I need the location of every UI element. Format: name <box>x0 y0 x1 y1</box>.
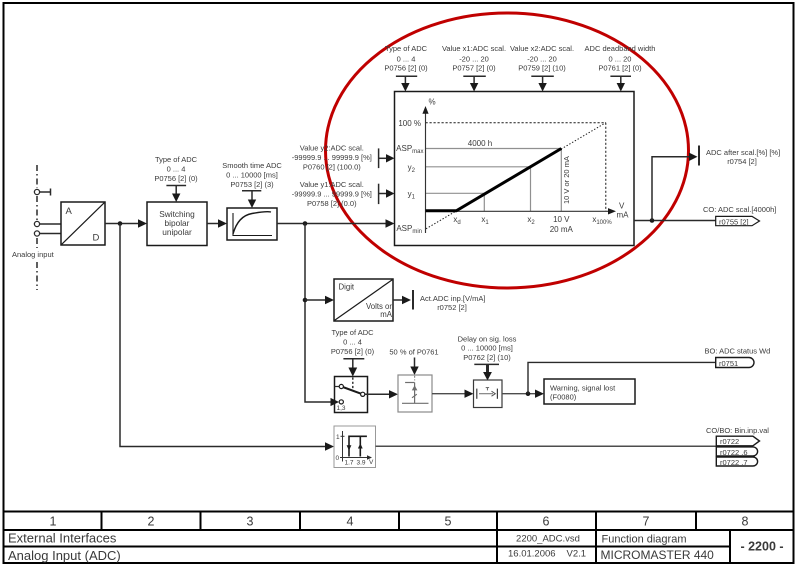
svg-text:D: D <box>93 233 100 244</box>
svg-text:Value x1:ADC scal.: Value x1:ADC scal. <box>442 44 506 53</box>
svg-text:Smooth time ADC: Smooth time ADC <box>222 161 282 170</box>
svg-text:External Interfaces: External Interfaces <box>8 531 117 546</box>
svg-text:(F0080): (F0080) <box>550 393 577 402</box>
svg-text:6: 6 <box>543 515 550 529</box>
svg-text:Function diagram: Function diagram <box>602 534 687 546</box>
svg-text:r0722: r0722 <box>720 437 739 446</box>
svg-text:unipolar: unipolar <box>162 227 192 237</box>
svg-text:1: 1 <box>336 434 340 441</box>
svg-text:Digit: Digit <box>339 282 355 291</box>
svg-text:Type of ADC: Type of ADC <box>385 44 428 53</box>
svg-text:Type of ADC: Type of ADC <box>331 328 374 337</box>
svg-text:16.01.2006: 16.01.2006 <box>508 548 556 559</box>
svg-text:0 ... 4: 0 ... 4 <box>167 165 186 174</box>
svg-text:5: 5 <box>445 515 452 529</box>
svg-text:2: 2 <box>148 515 155 529</box>
svg-text:Value y2:ADC scal.: Value y2:ADC scal. <box>300 143 364 152</box>
svg-text:1: 1 <box>50 515 57 529</box>
svg-text:Warning, signal lost: Warning, signal lost <box>550 384 616 393</box>
svg-text:mA: mA <box>380 310 392 319</box>
svg-text:2200_ADC.vsd: 2200_ADC.vsd <box>516 534 580 545</box>
svg-text:-99999.9 ... 99999.9 [%]: -99999.9 ... 99999.9 [%] <box>292 190 372 199</box>
svg-text:A: A <box>66 206 73 217</box>
svg-text:P0761 [2] (0): P0761 [2] (0) <box>598 64 642 73</box>
svg-text:4: 4 <box>347 515 354 529</box>
svg-text:r0722 .7: r0722 .7 <box>720 458 748 467</box>
svg-text:P0759 [2] (10): P0759 [2] (10) <box>518 64 566 73</box>
svg-text:Type of ADC: Type of ADC <box>155 155 198 164</box>
svg-text:CO: ADC scal.[4000h]: CO: ADC scal.[4000h] <box>703 205 776 214</box>
svg-text:-20 ... 20: -20 ... 20 <box>527 55 557 64</box>
svg-text:-99999.9 ... 99999.9 [%]: -99999.9 ... 99999.9 [%] <box>292 153 372 162</box>
svg-text:- 2200 -: - 2200 - <box>740 540 783 554</box>
svg-text:0 ... 4: 0 ... 4 <box>397 55 416 64</box>
svg-text:Act.ADC inp.[V/mA]: Act.ADC inp.[V/mA] <box>420 294 485 303</box>
svg-text:0 ... 10000 [ms]: 0 ... 10000 [ms] <box>461 344 513 353</box>
svg-text:0 ... 10000 [ms]: 0 ... 10000 [ms] <box>226 171 278 180</box>
svg-text:V2.1: V2.1 <box>567 548 587 559</box>
svg-text:P0756 [2] (0): P0756 [2] (0) <box>384 64 428 73</box>
svg-text:4000 h: 4000 h <box>468 139 492 148</box>
svg-text:r0751: r0751 <box>719 359 738 368</box>
svg-text:0: 0 <box>336 455 340 462</box>
svg-text:10 V or 20 mA: 10 V or 20 mA <box>562 156 571 204</box>
svg-text:r0755 [2]: r0755 [2] <box>719 217 749 226</box>
svg-text:Analog Input (ADC): Analog Input (ADC) <box>8 548 121 563</box>
svg-text:MICROMASTER 440: MICROMASTER 440 <box>601 548 715 562</box>
svg-text:1.7: 1.7 <box>345 460 354 467</box>
svg-text:100 %: 100 % <box>398 119 421 128</box>
svg-text:7: 7 <box>643 515 650 529</box>
svg-text:1,3: 1,3 <box>337 405 346 412</box>
svg-text:P0757 [2] (0): P0757 [2] (0) <box>452 64 496 73</box>
svg-text:ADC deadband width: ADC deadband width <box>585 44 656 53</box>
svg-text:P0758 [2] (0.0): P0758 [2] (0.0) <box>307 199 357 208</box>
svg-text:0 ... 20: 0 ... 20 <box>609 55 632 64</box>
svg-text:50 % of P0761: 50 % of P0761 <box>389 348 438 357</box>
svg-text:P0762 [2] (10): P0762 [2] (10) <box>463 353 511 362</box>
svg-text:10 V: 10 V <box>553 215 570 224</box>
svg-text:Value y1:ADC scal.: Value y1:ADC scal. <box>300 180 364 189</box>
svg-text:P0756 [2] (0): P0756 [2] (0) <box>154 174 198 183</box>
svg-text:CO/BO: Bin.inp.val: CO/BO: Bin.inp.val <box>706 426 769 435</box>
svg-text:20 mA: 20 mA <box>550 225 574 234</box>
svg-text:P0760 [2] (100.0): P0760 [2] (100.0) <box>303 162 361 171</box>
svg-text:mA: mA <box>617 210 630 219</box>
svg-text:%: % <box>429 98 436 107</box>
svg-text:Delay on sig. loss: Delay on sig. loss <box>458 335 517 344</box>
svg-text:r0722 .6: r0722 .6 <box>720 448 748 457</box>
svg-text:0 ... 4: 0 ... 4 <box>343 338 362 347</box>
svg-text:8: 8 <box>742 515 749 529</box>
svg-text:V: V <box>619 202 625 211</box>
svg-text:ADC after scal.[%] [%]: ADC after scal.[%] [%] <box>706 148 780 157</box>
svg-text:P0753 [2] (3): P0753 [2] (3) <box>230 180 274 189</box>
svg-text:3.9: 3.9 <box>357 460 366 467</box>
svg-text:Analog input: Analog input <box>12 250 55 259</box>
svg-text:3: 3 <box>247 515 254 529</box>
svg-text:Value x2:ADC scal.: Value x2:ADC scal. <box>510 44 574 53</box>
svg-text:V: V <box>369 459 374 466</box>
svg-text:-20 ... 20: -20 ... 20 <box>459 55 489 64</box>
svg-text:BO: ADC status Wd: BO: ADC status Wd <box>705 347 771 356</box>
svg-text:r0754 [2]: r0754 [2] <box>727 157 757 166</box>
svg-text:P0756 [2] (0): P0756 [2] (0) <box>331 347 375 356</box>
svg-text:r0752 [2]: r0752 [2] <box>437 303 467 312</box>
